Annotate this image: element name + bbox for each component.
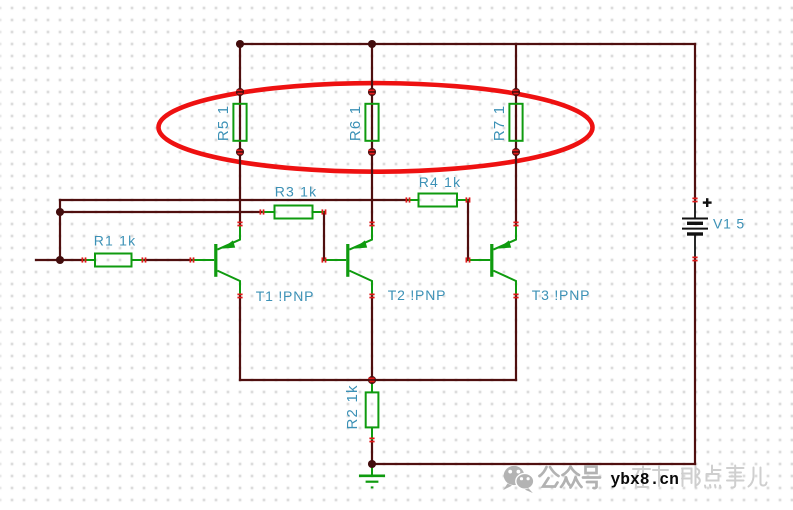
pin R1.2 (142, 257, 145, 262)
watermark char ying partially hidden (633, 466, 669, 487)
watermark char gong (540, 467, 559, 487)
junction node R6 pin 2 (368, 148, 376, 156)
junction node top-left of rails (236, 40, 244, 48)
pin T3 collector (513, 294, 518, 297)
watermark char er (749, 468, 767, 487)
svg-text:T2 !PNP: T2 !PNP (388, 287, 447, 303)
ground (359, 464, 385, 487)
pin R3.1 (260, 209, 263, 214)
watermark char zhong (561, 467, 582, 488)
resistor R5 (233, 104, 246, 141)
battery V1 (682, 200, 708, 258)
wire R7 branch vertical (515, 44, 517, 224)
wire input stub (36, 259, 84, 261)
wire y200 rail to R4 (60, 199, 408, 201)
wire R1 to T1 base (144, 259, 192, 261)
watermark char hao (583, 467, 600, 489)
wire T1 collector down (239, 296, 241, 380)
svg-text:R1 1k: R1 1k (94, 233, 137, 249)
pin T3 base (466, 257, 469, 262)
transistor T3 (468, 225, 516, 296)
resistor R3 (262, 206, 324, 219)
svg-text:T3 !PNP: T3 !PNP (532, 287, 591, 303)
wire top rail (239, 43, 695, 45)
wire R5 branch vertical (239, 44, 241, 224)
wire left vertical x60 (59, 200, 61, 260)
svg-text:ybx8.cn: ybx8.cn (611, 470, 679, 489)
resistor R2 (366, 380, 379, 440)
svg-text:T1 !PNP: T1 !PNP (256, 288, 315, 304)
wire y212 rail to R3 (60, 211, 262, 213)
junction node x60 y212 (56, 208, 64, 216)
watermark char na (682, 467, 700, 488)
junction node R6 top rail (368, 40, 376, 48)
pin T2 base (322, 257, 325, 262)
wire battery top vertical (694, 44, 696, 199)
junction node R7 pin 1 (512, 88, 520, 96)
svg-text:R3 1k: R3 1k (275, 184, 318, 200)
svg-text:V1 5: V1 5 (713, 216, 745, 232)
wire R4 to T3 base (467, 200, 469, 260)
wire T2 collector down (371, 296, 373, 380)
svg-text:R6 1: R6 1 (347, 105, 364, 141)
svg-text:R7 1: R7 1 (491, 105, 508, 141)
pin T3 emitter (513, 222, 518, 225)
watermark wechat icon (503, 466, 534, 493)
wire battery bottom vertical (694, 259, 696, 464)
wire R3 to T2 base (323, 212, 325, 260)
junction node R7 pin 2 (512, 148, 520, 156)
pin T1 emitter (237, 222, 242, 225)
junction node R2 pin 1 (368, 376, 376, 384)
pin R2.2 (369, 438, 374, 441)
junction node x60 y260 (56, 256, 64, 264)
pin V1 plus (692, 198, 697, 201)
resistor R4 (408, 194, 468, 207)
junction node R5 pin 2 (236, 148, 244, 156)
resistor R1 (84, 254, 144, 267)
pin R3.2 (322, 209, 325, 214)
pin T1 collector (237, 294, 242, 297)
svg-text:R5 1: R5 1 (215, 105, 232, 141)
pin R4.2 (466, 197, 469, 202)
pin T2 collector (369, 294, 374, 297)
junction node R6 pin 1 (368, 88, 376, 96)
pin T1 base (190, 257, 193, 262)
transistor T2 (324, 225, 372, 296)
battery plus sign (703, 198, 712, 207)
watermark char dian (705, 466, 721, 488)
resistor R7 (509, 104, 522, 141)
wire R2 to ground node (371, 440, 373, 464)
pin T2 emitter (369, 222, 374, 225)
highlight ellipse annotation (159, 83, 593, 172)
transistor T1 (192, 225, 240, 296)
watermark char shi (727, 466, 744, 488)
wire emitter bottom rail (240, 379, 516, 381)
pin R1.1 (82, 257, 85, 262)
svg-text:R2 1k: R2 1k (344, 384, 361, 429)
resistor R6 (365, 104, 378, 141)
wire R6 branch vertical (371, 44, 373, 224)
junction node R5 pin 1 (236, 88, 244, 96)
pin R4.1 (406, 197, 409, 202)
junction node ground (368, 460, 376, 468)
wire T3 collector down (515, 296, 517, 380)
wire bottom return rail (372, 463, 695, 465)
svg-text:R4 1k: R4 1k (419, 174, 462, 190)
pin V1 minus (692, 257, 697, 260)
